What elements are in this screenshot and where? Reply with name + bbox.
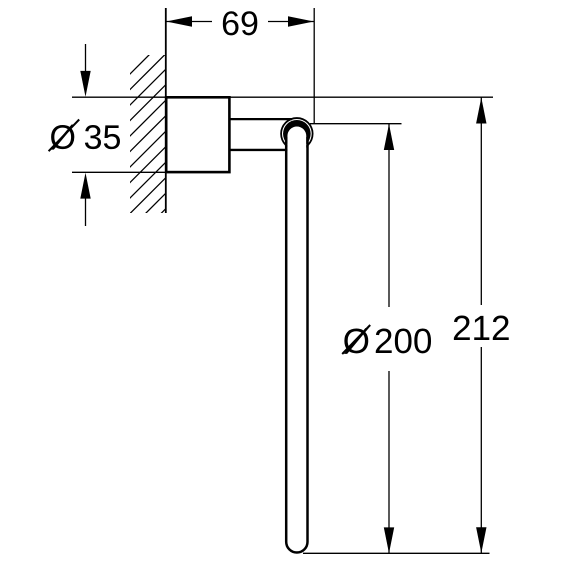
- label 212: [447, 305, 516, 347]
- dimension arrow Ø35 top: [85, 44, 87, 73]
- stem bottom line: [230, 149, 288, 151]
- label 69: [212, 8, 268, 36]
- arrowhead 212 top: [476, 98, 486, 124]
- ring joint outer circle: [281, 118, 313, 150]
- label Ø200 slash overhang: [342, 325, 370, 354]
- extension line Ø200 top: [310, 123, 402, 125]
- label Ø35 slash overhang: [49, 120, 80, 152]
- arrowhead 212 bottom: [476, 527, 486, 553]
- label Ø200: [337, 307, 441, 371]
- stem top line: [230, 118, 293, 120]
- arrowhead right of 69: [288, 16, 314, 26]
- wall hatching: [124, 32, 172, 266]
- extension line right of 69 dim: [313, 8, 315, 124]
- dimension line Ø200: [388, 124, 390, 553]
- ring tube interior (white channel): [287, 127, 306, 552]
- dimension line 212: [480, 98, 482, 554]
- extension line Ø35 lower: [72, 171, 166, 173]
- label Ø35: [51, 124, 120, 149]
- ring joint bend (thick black): [283, 120, 311, 148]
- arrowhead left of 69: [166, 16, 192, 26]
- bracket (wall rosette): [166, 97, 229, 172]
- extension line top (Ø35 upper / 212 top): [72, 96, 493, 98]
- arrowhead Ø200 bottom: [384, 527, 394, 553]
- arrowhead Ø200 top: [384, 124, 394, 150]
- ring tube outline (side view, rounded bottom): [286, 137, 307, 553]
- dimension arrow Ø35 bottom: [85, 198, 87, 226]
- wall line: [165, 8, 167, 213]
- dimension line 69: [166, 21, 314, 23]
- extension line bottom: [303, 552, 490, 554]
